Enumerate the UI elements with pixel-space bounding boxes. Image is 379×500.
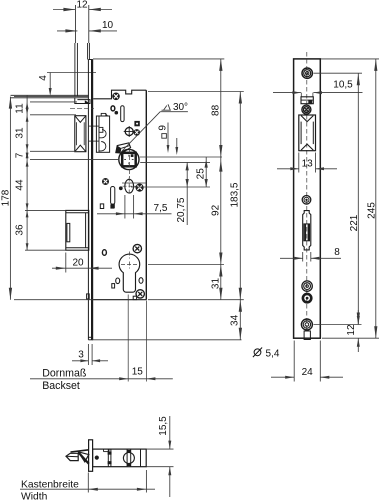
- follower trigger arm: [116, 143, 131, 153]
- lock case box (top view): [93, 449, 147, 467]
- faceplate (side view): [88, 60, 92, 340]
- rod connector block: [11, 95, 91, 103]
- dimension 24 (plate width): [271, 341, 343, 382]
- svg-text:7: 7: [15, 152, 26, 158]
- svg-text:Backset: Backset: [42, 380, 80, 392]
- svg-text:12: 12: [346, 324, 357, 336]
- svg-text:10,5: 10,5: [333, 80, 353, 91]
- svg-text:11: 11: [15, 103, 26, 114]
- dimension 20 (bolt throw): [52, 253, 112, 273]
- svg-text:44: 44: [15, 179, 26, 191]
- dimension 20,75: [176, 162, 189, 225]
- svg-text:Width: Width: [21, 492, 48, 500]
- latch body inside case: [89, 113, 110, 152]
- svg-text:183,5: 183,5: [230, 182, 241, 207]
- extension line cylinder axis right: [148, 264, 224, 266]
- dimension 31 left: [15, 115, 29, 160]
- faceplate front view outline: [294, 59, 321, 338]
- roller cutout front view: [299, 115, 316, 151]
- svg-text:5,4: 5,4: [266, 348, 280, 359]
- dimension 34: [230, 300, 242, 340]
- reference line at case top right: [148, 91, 244, 93]
- extension line screw axis: [122, 183, 210, 187]
- extension lines left chain: [25, 102, 119, 250]
- svg-text:Dornmaß: Dornmaß: [42, 368, 87, 380]
- Kastenbreite Width label and dimension: [20, 470, 155, 500]
- dimension 13 (roller cutout width): [277, 153, 337, 173]
- screw left dark with white X: [103, 179, 109, 185]
- slot below bottom screw: [304, 331, 310, 340]
- svg-text:13: 13: [302, 158, 314, 169]
- case back extension down: [145, 301, 147, 382]
- svg-text:3: 3: [78, 350, 84, 361]
- lock case outline (side view): [93, 90, 146, 300]
- small pins near cylinder: [102, 250, 143, 288]
- dimension 11: [15, 95, 29, 121]
- svg-text:92: 92: [210, 204, 221, 216]
- divider line right in box: [140, 449, 142, 467]
- svg-text:9: 9: [158, 125, 169, 131]
- small parts top area: [111, 106, 124, 122]
- svg-text:31: 31: [15, 127, 26, 139]
- svg-text:4: 4: [38, 75, 49, 81]
- latch axis dashed line: [70, 107, 94, 109]
- latch in cutout front view: [301, 93, 313, 104]
- extension line top screw to 221: [314, 72, 363, 74]
- screw with X above cylinder: [133, 244, 141, 252]
- square 9 label: [158, 123, 179, 156]
- deadbolt (thrown, side view): [66, 210, 89, 250]
- cylinder in box (top view): [123, 449, 134, 467]
- extension line case bottom right: [148, 299, 244, 301]
- screw pair lower: [302, 281, 312, 302]
- screw with X right of oval: [136, 184, 143, 191]
- screw with X near follower top: [134, 130, 140, 136]
- dimension 15 (axis to case back): [119, 366, 155, 380]
- small component pair near bolt top: [100, 204, 113, 209]
- 30 degree label with leader: [122, 102, 189, 152]
- euro profile cylinder hole: [119, 252, 140, 293]
- Dornmass Backset label line: [30, 368, 173, 392]
- dimension 15,5 (case height top view): [146, 416, 173, 497]
- faceplate centerline: [306, 52, 308, 332]
- svg-text:20,75: 20,75: [176, 197, 187, 222]
- cylinder centerline extension down: [127, 295, 129, 382]
- dimension 36: [15, 210, 29, 250]
- screw dot in box: [95, 456, 98, 459]
- dimension 4 (rod end to case): [38, 73, 96, 97]
- reference line at plate top: [93, 58, 224, 60]
- dimension 31 right: [210, 265, 222, 300]
- screw with X below cylinder: [136, 290, 144, 298]
- svg-text:7,5: 7,5: [154, 203, 168, 214]
- svg-text:20: 20: [72, 258, 84, 269]
- diameter 5,4 label: [253, 348, 280, 360]
- dimension 178 (case height): [1, 97, 94, 300]
- tiny square on case bottom: [133, 296, 136, 299]
- screw below latch: [302, 105, 311, 114]
- dimension 12 right view: [346, 310, 360, 352]
- svg-text:25: 25: [196, 168, 207, 180]
- svg-text:15: 15: [132, 366, 144, 377]
- latch bolt (top view): [66, 450, 89, 464]
- screw with cross near follower top: [124, 126, 135, 137]
- dimension 245: [367, 59, 378, 338]
- svg-text:30°: 30°: [173, 102, 188, 113]
- vertical drive rod (side view): [75, 5, 90, 96]
- svg-text:34: 34: [230, 314, 241, 326]
- small pin left of oval: [119, 187, 122, 190]
- deadbolt cutout front view: [303, 211, 311, 250]
- faceplate bar (top view): [89, 440, 93, 472]
- svg-text:245: 245: [367, 202, 378, 219]
- follower square centerline: [128, 148, 130, 178]
- svg-text:88: 88: [210, 104, 221, 116]
- extension line faceplate bottom right: [92, 339, 242, 341]
- svg-text:12: 12: [76, 0, 88, 11]
- follower nut with 9mm square: [119, 149, 139, 169]
- case screw top-left: [113, 93, 120, 100]
- dimension 10,5 (latch cutout width): [273, 80, 363, 95]
- svg-text:178: 178: [1, 189, 12, 206]
- svg-text:8: 8: [334, 247, 340, 258]
- svg-text:36: 36: [15, 224, 26, 236]
- svg-text:15,5: 15,5: [158, 416, 169, 436]
- bottom fixing screw: [301, 319, 312, 330]
- dimension 8 (bolt cutout width): [280, 247, 341, 262]
- guide slot below follower: [111, 187, 115, 208]
- extension line plate top right: [321, 58, 379, 60]
- svg-text:31: 31: [210, 278, 221, 290]
- svg-text:221: 221: [349, 214, 360, 231]
- extension lines dimension 12: [314, 325, 379, 339]
- faceplate front stud: [87, 294, 90, 299]
- dimension 44: [15, 160, 29, 211]
- follower reference lines (30 deg legs): [140, 157, 222, 162]
- dimension 221: [349, 73, 360, 324]
- dimension 10 (rod width inner): [57, 20, 117, 33]
- follower shaft in box: [108, 449, 111, 467]
- dimension 183,5: [230, 92, 242, 300]
- screw above bolt cutout: [302, 196, 311, 205]
- svg-text:Kastenbreite: Kastenbreite: [21, 480, 79, 491]
- oval hole below follower: [123, 178, 137, 196]
- latch roller (side view): [75, 116, 86, 152]
- dimension 25: [196, 157, 208, 187]
- tiny square part: [135, 121, 139, 125]
- dimension 7,5 (oval width): [97, 195, 172, 219]
- dimension 3 (faceplate thickness): [72, 344, 108, 365]
- svg-text:10: 10: [102, 20, 114, 31]
- dimension 7: [15, 151, 29, 159]
- svg-text:24: 24: [302, 367, 314, 378]
- dimension 12 (rod width): [53, 0, 112, 11]
- dimension 88: [210, 59, 222, 157]
- top fixing screw: [302, 68, 312, 78]
- dimension 92: [210, 157, 222, 265]
